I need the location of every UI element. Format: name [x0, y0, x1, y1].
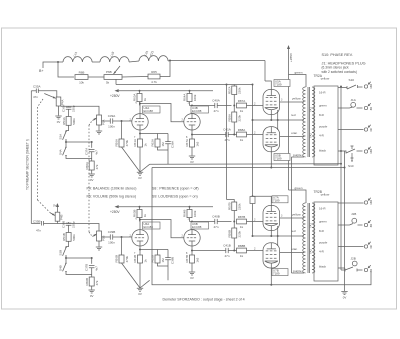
wiper of P4B [51, 213, 56, 216]
svg-text:ECC88: ECC88 [192, 225, 202, 229]
svg-text:with 2 switched contacts): with 2 switched contacts) [322, 70, 357, 74]
wire R56 to ground [122, 263, 141, 288]
wire cathode 1 [139, 246, 141, 255]
wire to anode 2 [191, 106, 193, 114]
wire 16R B [338, 202, 364, 204]
wire stack feed vertical [226, 85, 228, 200]
wire cathode1 to ground [139, 147, 141, 172]
wire +285V vertical [288, 49, 290, 190]
svg-text:7A1: 7A1 [309, 107, 313, 112]
wiper of P6B [114, 66, 121, 74]
wire grid top tube [247, 105, 264, 107]
wire C35B to P4B node [44, 223, 58, 225]
wire R62 C38 join [158, 263, 169, 266]
svg-text:+285V: +285V [289, 52, 293, 62]
svg-text:R54B: R54B [62, 233, 66, 241]
wire 8R to jack J1B [338, 224, 350, 226]
terminal 4R [364, 125, 371, 132]
wire stack mid [233, 95, 235, 113]
resistor R54A [66, 117, 71, 126]
wire green lead TR2B [289, 190, 307, 203]
resistor R58A [232, 112, 237, 122]
ground P5B [96, 247, 102, 250]
wire U5A anode to TR2A [280, 101, 304, 103]
svg-text:R56B: R56B [115, 255, 119, 263]
gang dashed line P5 [89, 122, 92, 126]
resistor R61A [138, 139, 143, 147]
terminal 8R [364, 103, 371, 110]
capacitor C39A [110, 118, 112, 123]
svg-text:R62B: R62B [151, 255, 155, 263]
wire P4A bottom node [61, 106, 99, 115]
triode U6B [184, 230, 200, 246]
svg-text:16R: 16R [369, 149, 373, 154]
svg-text:Demeter SFORZANDO : output sta: Demeter SFORZANDO : output stage - sheet… [163, 298, 245, 302]
wire cathode net top [140, 249, 168, 251]
wire P4B node to P5B [58, 224, 100, 232]
svg-text:47n: 47n [36, 229, 41, 233]
wire 8R to jack J1A [338, 107, 350, 109]
switch S10 pole A [338, 85, 363, 89]
wire interstage [140, 220, 184, 238]
wire R63 to anode [139, 218, 142, 230]
wire R64 bottom [189, 218, 191, 222]
svg-text:P4B: P4B [60, 214, 64, 220]
wire R56 top [121, 237, 123, 255]
wire C38 top [167, 134, 169, 142]
resistor R62A [155, 139, 160, 147]
capacitor C39B [110, 234, 112, 239]
wire bus to C35A [31, 90, 36, 92]
resistor R56B [119, 255, 124, 263]
svg-text:S10: PHASE REV.: S10: PHASE REV. [322, 53, 353, 57]
junction B+ node [57, 61, 59, 63]
wire to L1A [58, 61, 63, 63]
svg-text:1k: 1k [143, 213, 147, 217]
ground P5A [96, 131, 102, 134]
wire coupling bottom [192, 134, 226, 136]
output tube U7B [263, 243, 280, 268]
svg-text:7189: 7189 [273, 199, 280, 203]
bus TO PREAMP SECTION [30, 91, 32, 224]
wire U7A anode to TR2B [280, 217, 304, 219]
capacitor C37B [89, 266, 95, 268]
svg-text:S4B: S4B [58, 265, 62, 271]
wire U5B anode to TR2A [280, 136, 304, 138]
svg-text:220p: 220p [72, 221, 76, 228]
svg-text:4R: 4R [369, 128, 373, 131]
wire L1A-L1B [92, 61, 100, 63]
wire C40 to R87 [217, 221, 231, 223]
svg-text:0V: 0V [53, 204, 57, 208]
label tube U6A [143, 222, 161, 229]
wire cathode 1 [139, 130, 141, 139]
svg-text:0V: 0V [190, 160, 194, 164]
wire C37 to R60 [91, 152, 93, 161]
svg-text:1k: 1k [143, 97, 147, 101]
wire grid bottom tube [247, 250, 264, 252]
svg-text:1k: 1k [240, 138, 244, 142]
wire cathode U5B [270, 152, 272, 168]
resistor R60B [89, 277, 94, 286]
resistor R6B [75, 75, 88, 80]
svg-text:+280V: +280V [110, 210, 120, 214]
resistor R88A [237, 132, 247, 137]
wire stack feed B corner [227, 200, 235, 203]
svg-text:R67A: R67A [185, 139, 189, 147]
svg-text:S10: S10 [348, 164, 354, 168]
svg-text:purple: purple [319, 240, 328, 244]
terminal 8R [364, 220, 371, 227]
potentiometer P6B [104, 75, 122, 80]
svg-text:1M: 1M [161, 258, 165, 263]
potentiometer P5A [97, 115, 102, 125]
svg-text:4-R: 4-R [319, 133, 325, 137]
wire S10 crossover [340, 87, 342, 271]
svg-text:8R: 8R [369, 269, 373, 272]
wire interstage [140, 104, 184, 122]
wire U7B anode to TR2B [280, 252, 304, 254]
label tube U5B id [274, 153, 290, 160]
wire +280V rail B [119, 206, 213, 208]
wire ground bus 1 [150, 163, 341, 166]
svg-text:R54A: R54A [62, 117, 66, 125]
svg-text:7A2: 7A2 [309, 249, 313, 254]
resistor R62B [155, 255, 160, 263]
wire L2A out [168, 60, 170, 63]
label box taps TR2A [314, 86, 338, 165]
svg-text:C35B: C35B [33, 219, 41, 223]
junction anode node [139, 219, 141, 221]
terminal 16R [364, 147, 371, 154]
svg-text:47n: 47n [213, 109, 218, 113]
wire 4R tap A [338, 129, 364, 131]
switch S4A [63, 147, 67, 157]
wire screen link B [277, 226, 279, 246]
svg-text:oran: oran [291, 131, 297, 135]
svg-text:4-R: 4-R [319, 249, 325, 253]
svg-text:R58A: R58A [227, 114, 231, 122]
wire bus corner to C35B [31, 223, 40, 225]
wire C39 to grid [113, 236, 132, 238]
wire stack bottom [233, 238, 235, 251]
svg-text:yellow: yellow [321, 193, 330, 197]
junction choke output [169, 60, 171, 62]
wire B+ stub [43, 62, 58, 68]
net +285V [287, 45, 290, 49]
svg-text:oran: oran [291, 247, 297, 251]
wire cathode1 to ground [139, 263, 141, 288]
svg-text:C37B: C37B [85, 264, 89, 271]
wire node to C37 [91, 258, 93, 264]
wire C41 to R88 [228, 250, 236, 252]
stub S10 lower [351, 153, 354, 161]
svg-text:4n7: 4n7 [95, 150, 99, 155]
svg-text:purple: purple [319, 124, 328, 128]
svg-text:4R: 4R [369, 245, 373, 248]
svg-text:100k: 100k [193, 210, 197, 217]
svg-text:47k: 47k [95, 164, 99, 169]
wire C37 to R60 [91, 268, 93, 277]
svg-text:470k: 470k [125, 139, 129, 146]
potentiometer P4A [56, 97, 61, 106]
wire node S3-S4 [66, 257, 92, 259]
junction grid leak [121, 120, 123, 122]
wire C41 to R88 [228, 134, 236, 136]
ground first stage [137, 288, 143, 291]
wire R60 to ground [91, 170, 93, 174]
wire P4A bottom [58, 106, 60, 116]
svg-text:C41A: C41A [223, 127, 231, 131]
wire P4B bottom stub [57, 221, 59, 223]
wire bus to ground apex [140, 164, 150, 172]
svg-text:C40A: C40A [212, 98, 220, 102]
svg-text:1k: 1k [240, 254, 244, 258]
capacitor C40B [215, 219, 217, 224]
svg-text:purple: purple [293, 269, 302, 273]
terminal 16R [364, 198, 371, 205]
resistor R57B [232, 202, 237, 211]
stub C36B [68, 222, 70, 223]
svg-text:R63A: R63A [133, 94, 137, 102]
wire R62 C38 join [158, 147, 169, 150]
wiper of P4A [44, 94, 56, 99]
svg-text:S3B: S3B [58, 250, 62, 256]
output tube U5A [263, 89, 280, 114]
svg-text:J1A: J1A [351, 98, 357, 102]
wire P6B tap down [115, 79, 117, 84]
svg-text:R57B: R57B [227, 202, 231, 210]
resistor R64A [187, 94, 192, 102]
capacitor C41A [226, 132, 228, 137]
svg-text:7A2: 7A2 [309, 133, 313, 138]
svg-text:47n: 47n [33, 95, 38, 99]
junction stack feed A [226, 84, 228, 86]
resistor R65 [148, 74, 160, 79]
svg-text:TO PREAMP SECTION (SHEET I): TO PREAMP SECTION (SHEET I) [26, 139, 30, 190]
wire network to bus [167, 266, 169, 280]
wire green lead TR2A [289, 75, 307, 88]
wire to U5A anode [265, 81, 271, 89]
svg-text:1k: 1k [143, 143, 147, 147]
svg-text:47n: 47n [213, 225, 218, 229]
wire to S3A [66, 125, 69, 131]
triode U6A [132, 230, 148, 246]
svg-text:500k: 500k [72, 234, 76, 241]
wire B+ top rail [170, 60, 265, 62]
svg-text:5k: 5k [106, 81, 110, 85]
svg-text:C40B: C40B [212, 214, 220, 218]
svg-text:0V: 0V [138, 176, 142, 180]
svg-text:R58B: R58B [227, 230, 231, 238]
svg-text:S3A: S3A [58, 134, 62, 140]
svg-text:C38A: C38A [170, 141, 174, 148]
svg-text:P5: VOLUME (500k log stereo): P5: VOLUME (500k log stereo) [87, 195, 137, 199]
wire jack sleeve down [344, 151, 346, 291]
svg-text:red: red [291, 113, 296, 117]
svg-text:500k: 500k [72, 118, 76, 125]
wire R63 top [139, 207, 141, 210]
wire red tap TR2B [253, 235, 305, 237]
svg-text:C39A: C39A [108, 114, 116, 118]
resistor R60A [89, 161, 94, 170]
triode U4B [184, 114, 200, 130]
svg-text:R87B: R87B [238, 215, 246, 219]
node 0V above P4B [57, 206, 59, 212]
label tube U4B [191, 106, 209, 113]
wire screen vertical [252, 85, 254, 197]
wire R63 to anode [139, 102, 142, 114]
svg-text:R6B: R6B [79, 70, 85, 74]
wiper of P5A [93, 118, 97, 121]
svg-text:1k5: 1k5 [195, 257, 199, 262]
resistor R67A [190, 139, 195, 147]
svg-text:1k: 1k [240, 225, 244, 229]
ground R60B [89, 290, 95, 293]
svg-text:R61A: R61A [133, 139, 137, 147]
ground P4A [55, 116, 61, 119]
resistor R56A [119, 139, 124, 147]
svg-text:220k: 220k [238, 230, 242, 237]
svg-text:220k: 220k [238, 114, 242, 121]
svg-text:7189: 7189 [275, 156, 282, 160]
potentiometer P4B [55, 212, 60, 221]
wire stack feed A corner [233, 85, 235, 87]
wire C35A to P4A [38, 91, 57, 97]
resistor R63A [137, 94, 142, 102]
wire stack mid [233, 211, 235, 229]
junction anode node [139, 103, 141, 105]
terminal 4R [364, 242, 371, 249]
capacitor C36B [68, 221, 70, 224]
resistor R88B [237, 248, 247, 253]
svg-text:S4A: S4A [58, 149, 62, 155]
output tube U5B [263, 127, 280, 152]
svg-text:R88B: R88B [238, 244, 246, 248]
svg-text:47n: 47n [224, 254, 229, 258]
transformer TR2B [303, 203, 315, 273]
label tube U7B id [272, 269, 288, 276]
wire R6B-P6B [88, 76, 104, 78]
svg-text:0V: 0V [57, 120, 61, 124]
terminal 8R [364, 265, 371, 271]
wire R62 top [157, 134, 159, 140]
ground output [341, 292, 347, 295]
wire R60 to ground [91, 286, 93, 290]
wire NFB return loop [152, 168, 371, 285]
svg-text:7189: 7189 [273, 272, 280, 276]
inductor L2A [139, 56, 168, 61]
wire R64 bottom [189, 102, 191, 106]
svg-text:220k: 220k [238, 203, 242, 210]
capacitor C38A [165, 142, 171, 144]
net +280V B [115, 205, 119, 208]
wire coupling bottom [192, 250, 226, 252]
svg-text:R60A: R60A [85, 162, 89, 170]
wire cathode 2 [191, 130, 193, 139]
svg-text:C39B: C39B [108, 230, 116, 234]
wire coupling top [190, 105, 215, 107]
resistor R64B [187, 210, 192, 218]
ground R60A [89, 174, 95, 177]
svg-text:R64A: R64A [183, 94, 187, 102]
resistor R54B [66, 233, 71, 242]
resistor R58B [232, 228, 237, 238]
wire R63 top [139, 91, 141, 94]
wire C38 down [167, 260, 169, 266]
wire C39 to grid [113, 120, 132, 122]
svg-text:0V: 0V [90, 178, 94, 182]
switch S4B [63, 263, 67, 273]
wiper of P5B [93, 234, 97, 237]
output tube U7A [263, 205, 280, 230]
svg-text:16-R: 16-R [319, 206, 326, 210]
switch contact J2B [338, 267, 363, 270]
wire C36 to R54 [68, 109, 70, 116]
label tube U4A [143, 106, 161, 113]
switch S3B [63, 247, 67, 257]
terminal 16R [364, 82, 371, 89]
wire ground bus 2 [152, 167, 345, 169]
svg-text:470k: 470k [125, 255, 129, 262]
resistor R87A [237, 103, 247, 108]
wire grid top tube [247, 221, 264, 223]
wire to C39B [102, 236, 111, 238]
wire black tap B [341, 269, 345, 271]
wire cathode 2 [191, 246, 193, 255]
resistor R61B [138, 255, 143, 263]
svg-text:16R: 16R [369, 84, 373, 89]
wire S4 top [65, 142, 67, 147]
svg-text:1k5: 1k5 [195, 141, 199, 146]
svg-text:1M: 1M [161, 142, 165, 147]
wire C36 to R54 [68, 225, 70, 232]
wire cathode U7A [270, 231, 272, 236]
junction grid leak [121, 236, 123, 238]
svg-text:R63B: R63B [133, 210, 137, 218]
svg-text:100n: 100n [108, 241, 115, 245]
wire cathode U5A [270, 115, 272, 120]
wire R65 up to choke node [160, 61, 170, 77]
svg-text:7189: 7189 [275, 82, 282, 86]
resistor R63B [137, 210, 142, 218]
inductor L1B [100, 57, 129, 62]
svg-text:yellow: yellow [292, 213, 301, 217]
resistor R67B [190, 255, 195, 263]
wire P6B-R65 [122, 76, 148, 79]
wire +280V rail A [119, 90, 213, 92]
svg-text:100n: 100n [108, 125, 115, 129]
wire R56 to ground [122, 147, 141, 172]
svg-text:green: green [295, 71, 303, 75]
wire to anode 2 [191, 222, 193, 230]
ground second stage [189, 156, 195, 159]
switch S10 pole B [338, 149, 363, 153]
svg-text:P5A: P5A [102, 119, 106, 125]
svg-text:P5B: P5B [102, 235, 106, 241]
capacitor C40A [215, 103, 217, 108]
wire purple vertical [291, 157, 293, 273]
svg-text:P4A: P4A [61, 99, 65, 105]
label tube U7A id [272, 196, 288, 203]
svg-text:100k: 100k [193, 94, 197, 101]
junction R63 rail [139, 206, 141, 208]
svg-text:0V: 0V [90, 294, 94, 298]
svg-text:+280V: +280V [110, 94, 120, 98]
resistor R57A [232, 86, 237, 95]
wire S4 bottom row [66, 156, 92, 159]
capacitor C37A [89, 150, 95, 152]
